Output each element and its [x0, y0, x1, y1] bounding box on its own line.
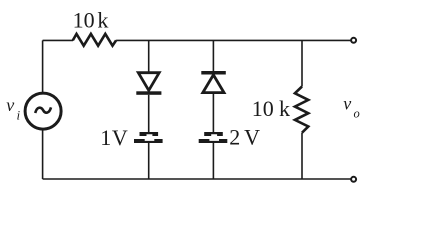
svg-text:10: 10	[73, 7, 95, 32]
svg-text:v: v	[343, 94, 351, 114]
wire D1 to battery B1	[148, 95, 150, 132]
label 1 V	[100, 125, 128, 150]
wire branch D1 top	[148, 40, 150, 71]
battery B2 2V	[199, 132, 228, 143]
label 10 k (right resistor)	[252, 96, 290, 121]
wire B1 bottom	[148, 143, 150, 179]
svg-text:2: 2	[229, 124, 240, 149]
source Vi sine tilde	[35, 107, 51, 113]
wire branch D2 top	[212, 40, 214, 71]
wire left vertical upper	[42, 40, 44, 92]
wire R2 bottom	[301, 133, 303, 179]
resistor R1 10k horizontal	[73, 34, 116, 46]
terminal top-right	[351, 38, 356, 43]
label v_i	[6, 95, 20, 122]
wire branch R2 top	[301, 40, 303, 86]
label 2 V	[229, 124, 260, 149]
resistor R2 10k vertical	[295, 87, 308, 133]
svg-text:1: 1	[100, 125, 111, 150]
svg-text:k: k	[97, 7, 108, 32]
diode D2 (cathode top, anode down)	[201, 71, 226, 93]
svg-text:i: i	[17, 107, 21, 122]
svg-text:k: k	[279, 96, 290, 121]
svg-text:o: o	[354, 107, 360, 121]
battery B1 1V	[134, 132, 163, 143]
label v_o	[343, 94, 360, 121]
diode D1 (anode top, cathode down)	[136, 73, 161, 95]
wire top-left segment	[43, 39, 73, 41]
wire bottom	[43, 178, 351, 180]
svg-text:10: 10	[252, 96, 274, 121]
label 10 k (top resistor)	[73, 7, 109, 32]
wire B2 bottom	[212, 143, 214, 179]
svg-text:V: V	[112, 125, 128, 150]
terminal bottom-right	[351, 177, 356, 182]
source Vi circle	[25, 93, 61, 129]
wire D2 to battery B2	[212, 94, 214, 132]
wire left vertical lower	[42, 130, 44, 179]
svg-text:v: v	[6, 95, 14, 115]
svg-text:V: V	[244, 124, 260, 149]
wire top-right segment	[116, 39, 351, 41]
